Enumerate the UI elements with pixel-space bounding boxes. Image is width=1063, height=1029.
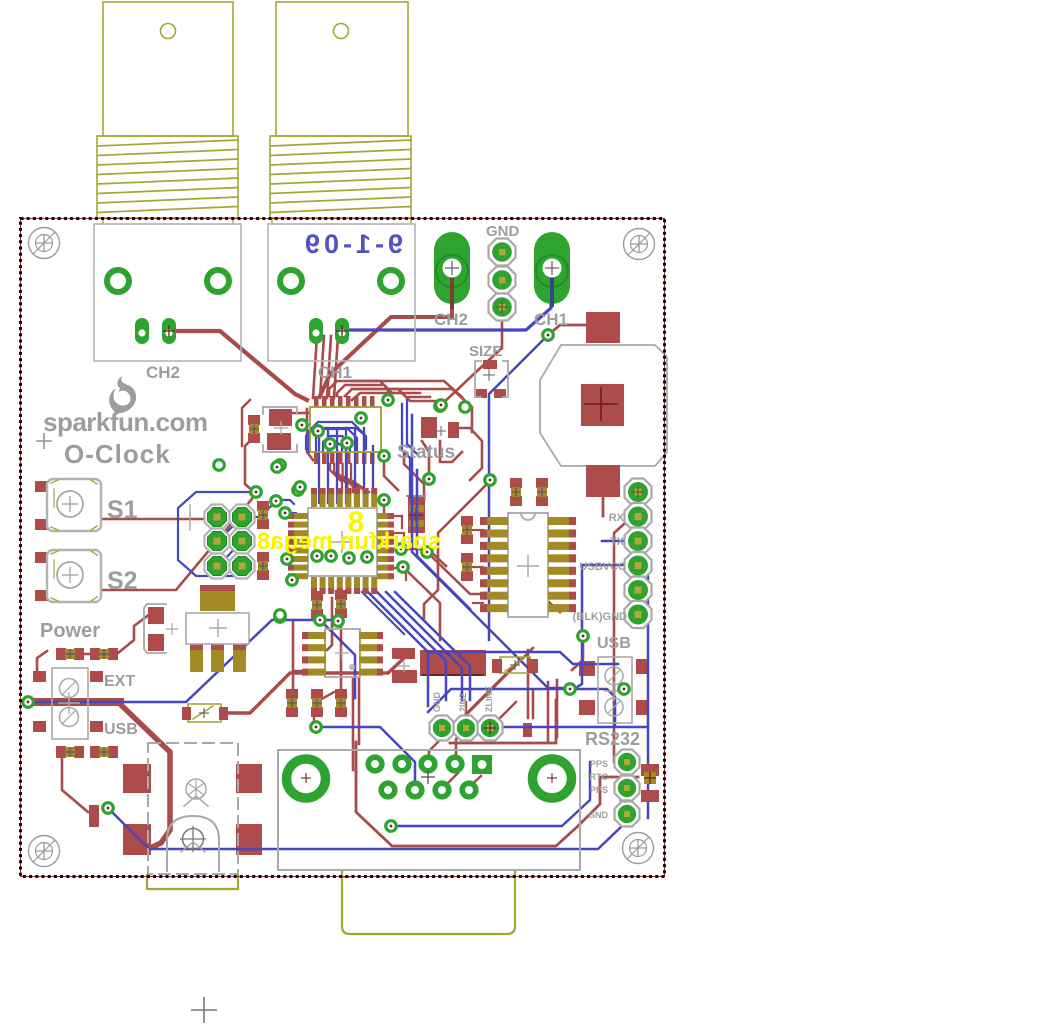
svg-text:RTC: RTC	[590, 772, 609, 782]
svg-text:USBVCC: USBVCC	[580, 561, 627, 573]
svg-text:S1: S1	[107, 496, 138, 524]
svg-text:GND: GND	[432, 692, 442, 713]
svg-text:PPS: PPS	[590, 785, 608, 795]
svg-text:RS232: RS232	[585, 729, 640, 749]
svg-text:9-1-09: 9-1-09	[301, 229, 403, 259]
svg-text:sparkfun.com: sparkfun.com	[43, 407, 208, 437]
svg-text:O-Clock: O-Clock	[64, 439, 171, 469]
svg-text:CH2: CH2	[146, 363, 180, 382]
svg-text:EXT: EXT	[104, 673, 135, 690]
svg-text:GND: GND	[588, 810, 609, 820]
svg-text:ZLINE: ZLINE	[484, 686, 494, 712]
svg-text:USB: USB	[597, 635, 631, 652]
svg-text:PPS: PPS	[590, 759, 608, 769]
svg-text:Status: Status	[397, 442, 455, 463]
svg-text:CH1: CH1	[534, 310, 568, 329]
svg-text:S2: S2	[107, 567, 138, 595]
svg-text:TX: TX	[610, 536, 625, 548]
svg-text:USB: USB	[104, 721, 138, 738]
svg-text:CH2: CH2	[434, 310, 468, 329]
svg-text:GND: GND	[486, 223, 520, 240]
svg-text:8: 8	[348, 506, 365, 539]
svg-text:SIZE: SIZE	[469, 343, 502, 360]
svg-text:RX: RX	[609, 512, 625, 524]
svg-text:(BLK)GND: (BLK)GND	[573, 611, 627, 623]
svg-text:Power: Power	[40, 620, 100, 642]
svg-text:2INZ: 2INZ	[458, 692, 468, 712]
svg-text:CH1: CH1	[318, 363, 352, 382]
